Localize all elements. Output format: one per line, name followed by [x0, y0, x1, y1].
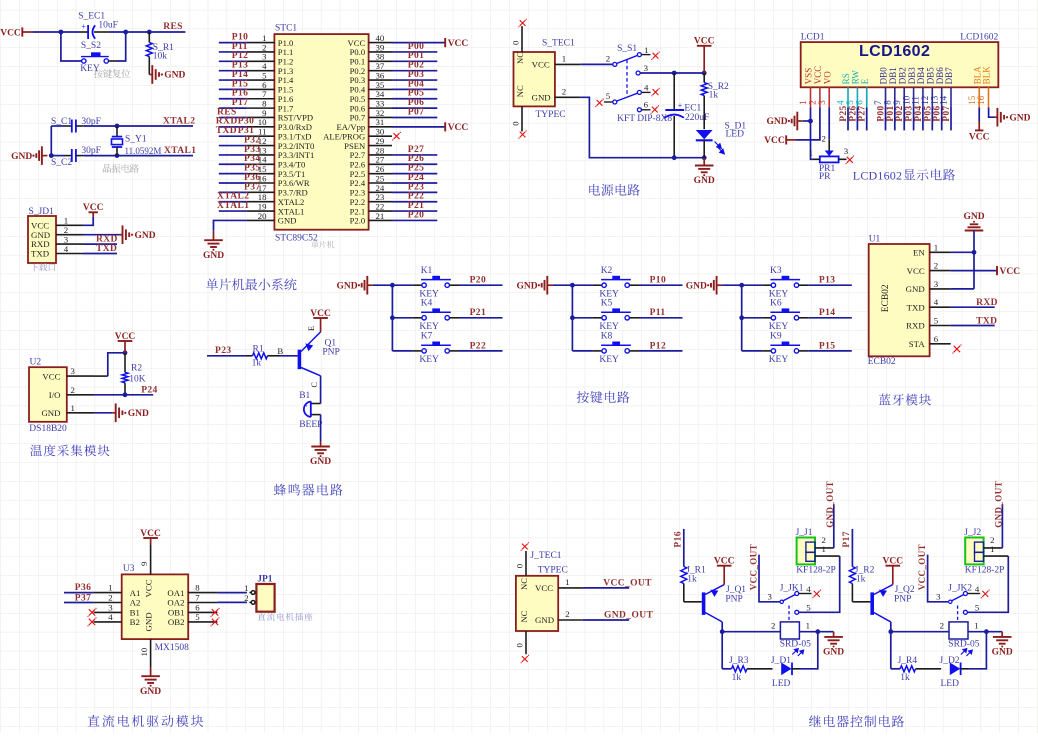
svg-text:KF128-2P: KF128-2P	[796, 566, 836, 576]
wire P06 row	[392, 107, 437, 109]
svg-text:K4: K4	[421, 299, 433, 309]
wire junction down to LED row	[721, 632, 723, 669]
wire P15	[799, 350, 809, 352]
svg-text:J_R3: J_R3	[729, 656, 749, 666]
svg-text:STC89C52: STC89C52	[275, 234, 318, 244]
text motor socket caption	[258, 613, 313, 621]
wire left row 15 STC1	[219, 173, 247, 175]
svg-text:0: 0	[515, 643, 525, 648]
svg-text:GND: GND	[41, 408, 60, 418]
svg-text:P37: P37	[75, 593, 92, 603]
svg-text:P24: P24	[141, 386, 158, 396]
wire P26 (LCD)	[856, 108, 858, 131]
wire left row 11 STC1	[219, 135, 247, 137]
svg-text:16: 16	[976, 95, 986, 105]
pin 19 (XTAL1) STC1	[247, 210, 275, 212]
no-ERC mark bottom (S_TEC1)	[520, 132, 526, 138]
svg-text:NC: NC	[515, 52, 525, 64]
svg-text:P36: P36	[75, 583, 92, 593]
pin 17 (P3.7/RD) STC1	[247, 191, 275, 193]
wire VCC_OUT	[583, 587, 629, 589]
svg-text:NC: NC	[515, 85, 525, 97]
wire P14	[799, 317, 809, 319]
pin 8 (P1.7) STC1	[247, 107, 275, 109]
pin 25 (P2.4) STC1	[369, 182, 392, 184]
IC LCD1 body	[801, 42, 999, 87]
pin 5 stub + no-ERC (S_S1)	[604, 101, 613, 103]
svg-text:2: 2	[940, 621, 944, 631]
svg-text:VCC_OUT: VCC_OUT	[917, 544, 927, 590]
svg-text:XTAL1: XTAL1	[217, 201, 249, 211]
wire left row 5 STC1	[219, 79, 247, 81]
wire pin40 to VCC	[392, 42, 445, 44]
wire VCC pin3 up to R2 junction	[94, 375, 108, 377]
resistor J_R3	[722, 668, 731, 670]
svg-text:S_TEC1: S_TEC1	[542, 39, 575, 49]
net label P23 wire	[207, 355, 246, 357]
resistor R1 (buzzer)	[246, 355, 253, 357]
pin 1 (P1.0) STC1	[247, 42, 275, 44]
svg-text:2: 2	[934, 261, 938, 271]
power port VCC (U1)	[996, 266, 998, 275]
svg-text:10k: 10k	[153, 52, 168, 62]
svg-text:20: 20	[258, 211, 267, 221]
svg-text:2: 2	[606, 53, 610, 63]
svg-text:1k: 1k	[687, 575, 697, 585]
transistor J_Q2 PNP	[870, 592, 874, 615]
svg-text:EN: EN	[913, 248, 925, 258]
svg-text:E: E	[307, 326, 316, 331]
svg-text:R1: R1	[253, 344, 264, 354]
relay coil SRD-05 (J_R1)	[780, 622, 799, 639]
svg-text:5: 5	[806, 603, 811, 613]
wire P07 row	[392, 116, 437, 118]
wire left row 4 STC1	[219, 70, 247, 72]
wire left row 19 STC1	[219, 210, 247, 212]
wire gnd to key column	[373, 284, 393, 286]
svg-text:RXD: RXD	[906, 321, 925, 331]
svg-text:C: C	[310, 382, 319, 388]
pin 38 (P0.1) STC1	[369, 60, 392, 62]
wire pin1 to VCC port	[83, 217, 93, 226]
svg-text:GND: GND	[135, 231, 156, 241]
wire left row 16 STC1	[219, 182, 247, 184]
svg-text:1: 1	[821, 544, 825, 554]
svg-text:NC: NC	[519, 610, 529, 622]
svg-text:LCD1602: LCD1602	[853, 169, 902, 183]
wire junction to RES rail	[126, 31, 150, 33]
relay arrows	[961, 649, 972, 656]
wire key column vertical	[741, 285, 743, 351]
svg-text:VCC: VCC	[1000, 267, 1021, 277]
pin 3 (S_JD1)	[56, 243, 83, 245]
svg-text:GND: GND	[278, 216, 297, 226]
svg-text:1k: 1k	[900, 673, 910, 683]
key switch K8	[572, 350, 593, 352]
svg-text:K1: K1	[421, 266, 433, 276]
wire P07 (LCD)	[950, 108, 952, 131]
svg-text:0: 0	[511, 121, 521, 126]
svg-text:LED: LED	[772, 679, 791, 689]
svg-text:GND: GND	[11, 152, 32, 162]
svg-text:3: 3	[844, 146, 849, 156]
wire OA2 to JP1	[217, 601, 247, 603]
wire left row 13 STC1	[219, 154, 247, 156]
pin 8 OA1 (U3)	[188, 592, 218, 594]
svg-text:DS18B20: DS18B20	[29, 424, 67, 434]
node junction key column top	[739, 283, 744, 288]
relay coil SRD-05 (J_R2)	[949, 622, 968, 639]
wire pin2 to GND	[83, 234, 120, 236]
power port VCC (backlight)	[975, 129, 983, 131]
power port VCC (J_Q1)	[717, 565, 732, 567]
svg-text:P21: P21	[470, 308, 487, 318]
pin 2 (P1.1) STC1	[247, 51, 275, 53]
pin 7 OA2 (U3)	[188, 602, 218, 604]
key switch K7	[392, 350, 413, 352]
svg-text:GND: GND	[310, 457, 331, 467]
wire left row 7 STC1	[219, 98, 247, 100]
wire cap to junction 2	[109, 31, 126, 33]
wire VSS junction down to PR1 pin1	[811, 121, 814, 159]
svg-text:VCC: VCC	[907, 266, 925, 276]
node junction XTAL1	[115, 153, 120, 158]
svg-text:KEY: KEY	[419, 322, 439, 332]
svg-text:3: 3	[936, 591, 941, 601]
pin 10 (P3.0/RxD) STC1	[247, 126, 275, 128]
pin 34 (P0.5) STC1	[369, 98, 392, 100]
svg-text:2: 2	[244, 593, 248, 603]
wire buzzer to gnd	[320, 415, 322, 441]
pin 4 stub + no-ERC	[967, 593, 980, 595]
svg-text:3: 3	[644, 63, 649, 73]
capacitor S_EC1	[61, 31, 80, 33]
no-ERC mark pin30	[394, 133, 400, 139]
svg-text:P13: P13	[819, 276, 836, 286]
wire left row 18 STC1	[219, 201, 247, 203]
wire XTAL2	[117, 125, 193, 127]
pin 16 (P3.6/WR) STC1	[247, 182, 275, 184]
svg-text:1: 1	[562, 54, 566, 64]
text power circuit title	[589, 184, 640, 196]
power port VCC (buzzer)	[313, 317, 328, 319]
wire GND_OUT up	[1001, 504, 1003, 548]
wire P22	[449, 350, 459, 352]
potentiometer PR1	[825, 151, 834, 157]
pin 21 (P2.0) STC1	[369, 219, 392, 221]
wire pin3 to cap rail	[640, 72, 674, 74]
svg-text:GND: GND	[823, 648, 844, 658]
pin 37 (P0.2) STC1	[369, 70, 392, 72]
power port VCC (U3)	[143, 537, 158, 539]
svg-text:I/O: I/O	[49, 390, 61, 400]
wire gnd to key column	[722, 284, 742, 286]
svg-text:TXD: TXD	[216, 126, 237, 136]
svg-text:P17: P17	[842, 531, 852, 548]
svg-text:10uF: 10uF	[98, 21, 118, 31]
svg-text:GND: GND	[963, 212, 984, 222]
key switch K4	[392, 317, 413, 319]
node junction VSS/gnd	[808, 119, 813, 124]
LED S_D1	[696, 130, 713, 139]
crystal S_Y1	[116, 126, 118, 137]
svg-text:GND: GND	[1009, 113, 1030, 123]
wire coil pin1 to gnd junction	[799, 631, 833, 633]
wire C1 to XTAL2	[84, 125, 117, 127]
svg-text:GND: GND	[203, 251, 224, 261]
wire P25 row	[392, 173, 437, 175]
wire P05 row	[392, 98, 437, 100]
node junction right of cap	[123, 30, 128, 35]
no-ERC mark OB1	[212, 609, 218, 615]
pin 2 (KF128)	[815, 547, 834, 549]
svg-text:K3: K3	[770, 266, 782, 276]
wire GND pin to bottom rail	[580, 97, 674, 157]
power port VCC (J_Q2)	[886, 565, 901, 567]
connector JP1 body	[256, 584, 274, 612]
key switch K6	[742, 317, 763, 319]
svg-text:TXD: TXD	[31, 249, 49, 259]
wire OA1 to JP1	[217, 592, 247, 594]
svg-text:+: +	[678, 101, 683, 110]
pin 6 contact (S_S1)	[637, 108, 641, 112]
pin 40 (VCC) STC1	[369, 42, 392, 44]
pin 6 OB1 (U3)	[188, 611, 218, 613]
svg-text:4: 4	[806, 584, 811, 594]
svg-text:10K: 10K	[129, 374, 146, 384]
svg-text:J_Q2: J_Q2	[895, 585, 915, 595]
node junction at reset rail	[59, 30, 64, 35]
svg-text:R2: R2	[131, 363, 142, 373]
pin 22 (P2.1) STC1	[369, 210, 392, 212]
svg-text:P2.0: P2.0	[350, 216, 366, 226]
svg-text:JP1: JP1	[257, 575, 273, 585]
svg-text:6: 6	[644, 100, 649, 110]
svg-text:5: 5	[975, 603, 980, 613]
svg-text:1k: 1k	[709, 90, 719, 100]
svg-text:GND: GND	[694, 176, 715, 186]
dashed link relay	[788, 606, 790, 622]
wire LED up to junction	[969, 632, 987, 669]
pin 24 (P2.3) STC1	[369, 191, 392, 193]
svg-text:4: 4	[108, 612, 113, 622]
svg-text:KFT DIP-8X8: KFT DIP-8X8	[617, 114, 672, 124]
svg-text:ECB02: ECB02	[868, 357, 896, 367]
wire coil pin1 to gnd junction	[968, 631, 1002, 633]
node junction bottom rail	[702, 155, 707, 160]
svg-text:2: 2	[771, 621, 775, 631]
wire P27 (LCD)	[866, 108, 868, 131]
svg-text:4: 4	[934, 297, 939, 307]
svg-text:GND: GND	[906, 284, 925, 294]
wire P04 row	[392, 88, 437, 90]
text relay title	[809, 715, 904, 727]
svg-text:B1: B1	[130, 608, 140, 618]
svg-text:K6: K6	[770, 299, 782, 309]
svg-text:VCC: VCC	[969, 133, 990, 143]
wire coil pin2	[722, 631, 780, 633]
wire base	[280, 355, 298, 357]
node junction key column top	[570, 283, 575, 288]
svg-text:2: 2	[822, 134, 826, 144]
svg-text:PNP: PNP	[725, 595, 742, 605]
pin NC bottom (S_TEC1)	[521, 106, 523, 131]
svg-text:11.0592M: 11.0592M	[125, 146, 162, 156]
key switch K5	[572, 317, 593, 319]
node junction coil/gnd	[984, 629, 989, 634]
svg-text:5: 5	[195, 612, 200, 622]
key switch K9	[742, 350, 763, 352]
dashed link relay	[957, 606, 959, 622]
wire VCC_OUT to contact 3	[759, 555, 780, 602]
capacitor S_C1	[65, 125, 72, 127]
node junction I/O-R2	[123, 392, 128, 397]
svg-text:B1: B1	[299, 391, 310, 401]
wire TXD	[83, 253, 117, 255]
switch S_S1 link dashed	[626, 60, 628, 95]
wire coil pin2	[891, 631, 949, 633]
svg-text:30pF: 30pF	[81, 146, 101, 156]
svg-text:2: 2	[562, 87, 566, 97]
svg-text:VO: VO	[822, 71, 832, 84]
svg-text:OB1: OB1	[168, 608, 185, 618]
svg-text:VCC: VCC	[883, 557, 904, 567]
relay arrows	[792, 649, 803, 656]
switch contact J_JK1	[780, 600, 783, 603]
wire left row 8 STC1	[219, 107, 247, 109]
node junction coil/gnd	[815, 629, 820, 634]
pin 23 (P2.2) STC1	[369, 201, 392, 203]
svg-text:2: 2	[71, 385, 75, 395]
svg-text:P22: P22	[470, 341, 487, 351]
wire VSS down to gnd junction	[810, 108, 812, 122]
svg-text:4: 4	[644, 82, 649, 92]
svg-text:A2: A2	[130, 598, 141, 608]
wire collector to buzzer	[320, 376, 322, 404]
transistor Q1 PNP	[298, 350, 302, 370]
node junction VCC rail	[702, 71, 707, 76]
svg-text:VCC: VCC	[83, 203, 104, 213]
resistor J_R2	[849, 567, 855, 584]
pin 14 (P3.4/T0) STC1	[247, 163, 275, 165]
wire P03 (LCD)	[913, 108, 915, 131]
svg-text:S_S1: S_S1	[617, 44, 637, 54]
svg-text:VCC: VCC	[0, 28, 21, 38]
svg-text:P20: P20	[408, 210, 425, 220]
pin 18 (XTAL2) STC1	[247, 201, 275, 203]
text minimum system title	[206, 278, 297, 290]
svg-text:KEY: KEY	[599, 355, 619, 365]
pin NC top (S_TEC1)	[521, 26, 523, 52]
svg-text:K8: K8	[601, 332, 613, 342]
svg-text:P11: P11	[650, 308, 666, 318]
svg-text:U1: U1	[869, 235, 881, 245]
svg-text:4: 4	[975, 584, 980, 594]
ground GND (S_JD1)	[120, 234, 123, 236]
svg-text:DB7: DB7	[944, 67, 954, 85]
wire RXD	[83, 243, 117, 245]
wire LED up to junction	[800, 632, 818, 669]
wire P27 row	[392, 154, 437, 156]
svg-text:P16: P16	[674, 531, 684, 548]
wire VCC to junction	[33, 31, 61, 33]
no-ERC mark STA	[954, 346, 960, 352]
switch S_S1 section A	[613, 62, 617, 66]
svg-text:MX1508: MX1508	[155, 643, 190, 653]
svg-text:VCC: VCC	[448, 123, 469, 133]
wire junction down to LED row	[890, 632, 892, 669]
no-ERC mark top (J_TEC1)	[522, 544, 528, 550]
wire collector down	[890, 622, 892, 632]
wire collector down	[721, 622, 723, 632]
pin 35 (P0.4) STC1	[369, 88, 392, 90]
svg-text:P15: P15	[819, 341, 836, 351]
pin 4 B2 (U3)	[94, 621, 122, 623]
svg-text:K7: K7	[421, 332, 433, 342]
wire key column vertical	[391, 285, 393, 351]
text temperature module title	[30, 444, 109, 456]
pin 29 (PSEN) STC1	[369, 145, 392, 147]
key switch K1	[392, 284, 413, 286]
svg-text:1k: 1k	[856, 575, 866, 585]
text motor driver title	[88, 715, 204, 727]
key switch K2	[572, 284, 593, 286]
IC U3 body	[122, 574, 189, 639]
pin 1 stub + no-ERC (S_S1)	[641, 54, 650, 56]
svg-text:S_C1: S_C1	[51, 117, 72, 127]
wire base (J_Q2)	[852, 601, 870, 603]
wire left row 6 STC1	[219, 88, 247, 90]
wire left row 17 STC1	[219, 191, 247, 193]
pin 12 (P3.2/INT0) STC1	[247, 145, 275, 147]
ground GND (U2)	[113, 412, 116, 414]
svg-text:9: 9	[139, 561, 149, 566]
svg-text:6: 6	[934, 334, 939, 344]
wire P11	[629, 317, 639, 319]
svg-text:1: 1	[244, 583, 248, 593]
IC U2 body	[29, 367, 67, 422]
svg-text:P31: P31	[238, 126, 255, 136]
key switch S_S2	[80, 60, 83, 62]
wire P02 (LCD)	[903, 108, 905, 131]
svg-text:0: 0	[515, 563, 525, 568]
svg-text:14: 14	[939, 95, 949, 105]
pin 9 VCC (U3)	[150, 545, 152, 574]
IC U-STC1 body	[274, 34, 368, 230]
power port VCC (pin40)	[444, 38, 446, 47]
wire left row 12 STC1	[219, 145, 247, 147]
wire C2 row	[51, 155, 64, 157]
svg-text:5: 5	[934, 316, 939, 326]
svg-text:VCC: VCC	[448, 39, 469, 49]
wire left row 1 STC1	[219, 42, 247, 44]
wire P26 row	[392, 163, 437, 165]
connector J_J2 KF128-2P	[965, 538, 983, 565]
wire GND_OUT	[583, 619, 629, 621]
wire contact5 to connector pin1	[799, 556, 840, 612]
svg-text:P23: P23	[215, 346, 232, 356]
svg-text:J_D2: J_D2	[940, 656, 960, 666]
wire P22 row	[392, 201, 437, 203]
power port VCC (S_JD1)	[89, 211, 98, 213]
svg-text:GND: GND	[164, 71, 185, 81]
svg-text:0: 0	[511, 40, 521, 45]
ground GND (reset)	[149, 74, 152, 76]
svg-text:7: 7	[195, 593, 200, 603]
svg-text:J_Q1: J_Q1	[726, 585, 746, 595]
wire P04 (LCD)	[922, 108, 924, 131]
wire XTAL1	[117, 155, 193, 157]
